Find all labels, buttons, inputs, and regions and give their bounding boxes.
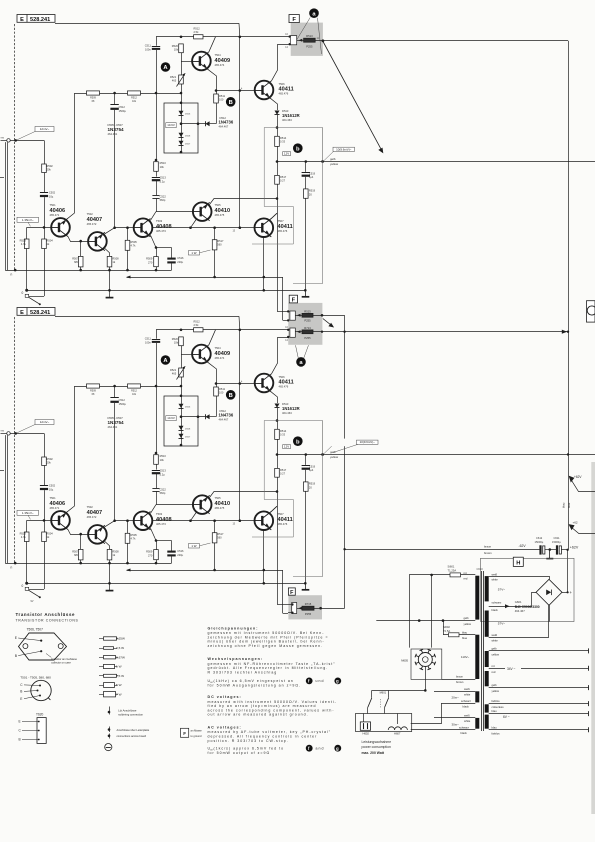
measurement arrow +62V (571, 479, 595, 492)
svg-text:R521: R521 (170, 75, 177, 79)
svg-text:R502: R502 (47, 164, 54, 168)
wire driver rail (239, 37, 241, 228)
wire selector feed b (431, 575, 433, 648)
wire lamp box to transformer (411, 703, 442, 723)
svg-text:Si602: Si602 (443, 625, 450, 629)
wire +62V line lower channel (313, 331, 568, 333)
wire F pin 12 (288, 44, 290, 46)
svg-text:R504: R504 (47, 239, 54, 243)
resistor R503 4.7k (26, 227, 28, 239)
svg-text:R515: R515 (304, 309, 311, 313)
svg-text:TRANSISTOR CONNECTIONS: TRANSISTOR CONNECTIONS (16, 619, 79, 623)
svg-text:1N4736: 1N4736 (219, 120, 234, 125)
wire n rail (5, 270, 171, 272)
svg-text:M605: M605 (401, 658, 408, 662)
svg-text:yellow: yellow (330, 162, 339, 166)
svg-text:C519: C519 (309, 171, 316, 175)
svg-text:gelb: gelb (492, 683, 498, 687)
svg-text:Si601: Si601 (448, 565, 455, 569)
wire tap blau 6V (489, 713, 589, 715)
svg-text:464.463: 464.463 (282, 118, 292, 122)
node A marker (161, 62, 171, 72)
transformer primary windings (475, 576, 479, 620)
svg-text:R517: R517 (280, 175, 287, 179)
svg-text:gelb: gelb (464, 616, 470, 620)
wire T501 collector (68, 93, 75, 218)
transistor T507 40411 (254, 218, 273, 237)
wire callout a4 (304, 345, 309, 358)
wire T503 collector (150, 212, 156, 221)
legend resistor 5 W (99, 683, 122, 688)
svg-text:weiß: weiß (492, 572, 498, 576)
diode D512 1N4736 (205, 121, 209, 126)
svg-text:colourless: colourless (492, 705, 505, 709)
transistor T504 40409 (192, 52, 211, 71)
wire T506 collector to F pin (272, 45, 289, 81)
svg-text:20k: 20k (47, 168, 52, 172)
svg-text:T620: T620 (36, 713, 43, 717)
svg-text:connections across board: connections across board (117, 734, 147, 738)
wire tap gelb2 (489, 687, 589, 689)
connector F (middle) gray block (288, 303, 322, 345)
svg-text:C516: C516 (177, 256, 184, 260)
svg-text:H607: H607 (394, 732, 401, 736)
svg-text:weiß: weiß (464, 714, 470, 718)
legend resistor 0,67W (99, 655, 125, 659)
svg-text:white: white (492, 578, 499, 582)
svg-text:T503: T503 (156, 219, 163, 223)
wire bridge AC1 (489, 577, 550, 580)
label 12mV (35, 127, 54, 132)
measurement arrow speaker (323, 319, 333, 327)
diode D513 1N1612R (272, 99, 278, 110)
svg-text:10(9.6mV)~: 10(9.6mV)~ (360, 440, 375, 444)
capacitor C508 (114, 93, 116, 104)
svg-text:B: B (19, 738, 21, 742)
svg-text:weiß: weiß (464, 687, 470, 691)
svg-text:Gleichspannungen:: Gleichspannungen: (208, 626, 259, 630)
second channel (translated copy) (0, 308, 595, 614)
svg-text:1.35mV~: 1.35mV~ (22, 218, 34, 222)
svg-text:D507: D507 (185, 144, 191, 146)
svg-text:white: white (492, 638, 499, 642)
resistor R715 P255 (302, 606, 314, 610)
svg-text:an Masse: an Masse (191, 729, 203, 733)
svg-text:100: 100 (219, 98, 224, 102)
connector F (bottom) gray block (288, 595, 322, 619)
svg-text:560p: 560p (160, 198, 166, 202)
svg-text:6µ4: 6µ4 (309, 175, 314, 179)
wire T501 collector to T502 base (68, 237, 88, 242)
svg-text:(1kc/s) approx 6,5mV fed t: (1kc/s) approx 6,5mV fed to (214, 746, 285, 750)
svg-text:white: white (464, 693, 471, 697)
svg-text:40406: 40406 (50, 208, 66, 214)
wire module edge right (322, 128, 324, 162)
svg-text:farblos: farblos (492, 699, 501, 703)
svg-text:34V ~: 34V ~ (507, 667, 516, 671)
resistor R514 0.33 (275, 136, 280, 146)
svg-text:rot: rot (464, 571, 467, 575)
svg-text:C511: C511 (145, 44, 152, 48)
trimmer R521 (179, 75, 184, 84)
svg-text:brown: brown (456, 680, 464, 684)
svg-text:0: 0 (22, 291, 24, 295)
primary tap weiss2 (434, 717, 475, 719)
svg-text:57V~: 57V~ (498, 622, 506, 626)
svg-text:40411: 40411 (279, 86, 294, 92)
svg-text:0,67W: 0,67W (116, 655, 125, 659)
wire F pin 10 (288, 36, 290, 38)
svg-text:30m~: 30m~ (452, 723, 460, 727)
wire T505 emitter (191, 219, 197, 228)
svg-text:yellow: yellow (492, 652, 500, 656)
legend resistor 1 W (99, 664, 122, 668)
wire left return (7, 142, 9, 270)
legend resistor 7 W (99, 692, 122, 697)
svg-text:schwarz: schwarz (461, 699, 472, 703)
wire bridge minus (549, 605, 551, 621)
scan shading right edge (591, 462, 595, 814)
measurement notes text block (208, 626, 342, 755)
resistor R517c 560 (214, 228, 216, 240)
primary tap schwarz2 (411, 729, 476, 731)
transistor T502 40407 (88, 232, 107, 251)
svg-text:5 W: 5 W (116, 683, 122, 687)
svg-text:6V ~: 6V ~ (503, 715, 510, 719)
wire T505 collector (210, 199, 278, 205)
svg-text:rot: rot (492, 664, 495, 668)
svg-text:Transistor Anschlüsse: Transistor Anschlüsse (16, 612, 76, 617)
wire callout a2 (318, 18, 322, 54)
wire T507 collector (271, 213, 277, 219)
capacitor C611 15000µ (556, 545, 558, 554)
svg-text:R505: R505 (131, 240, 138, 244)
transistor T501 40406 (51, 218, 70, 237)
svg-text:red: red (464, 576, 468, 580)
svg-text:R510: R510 (160, 161, 167, 165)
wire callout a3 (296, 345, 299, 358)
ground symbol (305, 290, 307, 296)
wire T505 base (156, 211, 192, 213)
wire tap farblos2 (489, 729, 589, 731)
label 12V (283, 152, 291, 156)
svg-text:-62V: -62V (519, 544, 527, 548)
column R510/C513/C522 (156, 93, 158, 160)
svg-text:black: black (463, 705, 470, 709)
svg-text:465.475: 465.475 (215, 213, 225, 217)
wire winding return (489, 605, 549, 637)
wire dashed board-edge line (14, 24, 16, 270)
svg-text:0.33: 0.33 (280, 140, 286, 144)
svg-text:C513: C513 (160, 176, 167, 180)
svg-text:farblos: farblos (492, 731, 501, 735)
resistor R509 68 (87, 91, 100, 95)
svg-text:schwarz: schwarz (492, 600, 503, 604)
resistor R513 P255 (304, 38, 316, 42)
svg-text:528.241: 528.241 (30, 17, 50, 23)
connector inner box middle bottom (290, 328, 295, 337)
wire tap rot 34V (489, 668, 505, 670)
svg-text:12mV~: 12mV~ (40, 127, 50, 131)
wire R715 in (297, 608, 302, 610)
svg-text:blau: blau (462, 630, 468, 634)
wire T503 base (115, 227, 135, 229)
svg-text:C610: C610 (477, 567, 484, 571)
wire 0 rail (27, 290, 306, 292)
svg-text:R514: R514 (280, 136, 287, 140)
primary tap blau with fuse Si602 (443, 634, 475, 636)
resistor R512b 10k (128, 91, 141, 95)
node B marker (226, 97, 236, 107)
power supply boundary box H (481, 558, 575, 621)
svg-text:220µ: 220µ (177, 260, 183, 264)
wire T504 collector (209, 37, 216, 52)
svg-text:R715: R715 (305, 602, 312, 606)
wire R515 out (313, 315, 345, 317)
transistor T505 40410 (193, 202, 212, 221)
resistor R515 P255 (302, 313, 313, 317)
resistor R713 P255 (302, 330, 313, 334)
svg-text:1,3 W: 1,3 W (116, 674, 124, 678)
ground symbol input stage (108, 289, 111, 292)
svg-text:D508: D508 (185, 136, 191, 138)
svg-text:10k: 10k (174, 48, 179, 52)
resistor R509b 270 (150, 235, 156, 248)
label 1.35mV (17, 217, 39, 222)
mains switch M601 (368, 698, 372, 708)
capacitor C612 15000µ (539, 545, 541, 554)
legend resistor 0,5 W (99, 646, 124, 650)
label 1W (188, 251, 199, 255)
wire T507 emitter (263, 237, 265, 291)
wire bottom F pin a (288, 604, 292, 606)
svg-text:Wechselspannungen:: Wechselspannungen: (208, 657, 264, 661)
svg-text:15000µ: 15000µ (535, 540, 544, 544)
wire R713 in (295, 331, 302, 333)
wire T504 base (181, 61, 193, 63)
svg-text:red: red (492, 670, 496, 674)
switch at input ground (29, 297, 40, 304)
legend board connections (108, 728, 111, 731)
transistor T506 40411 (255, 81, 274, 100)
svg-text:b: b (296, 146, 300, 152)
svg-text:10(9.6mV)~: 10(9.6mV)~ (336, 147, 351, 151)
svg-text:and: and (316, 746, 325, 750)
svg-text:10.6V: 10.6V (167, 123, 175, 127)
svg-text:R503: R503 (20, 239, 27, 243)
svg-text:2.5k: 2.5k (194, 30, 200, 34)
svg-text:0,5 W: 0,5 W (116, 646, 124, 650)
primary tap weiss (434, 691, 475, 693)
svg-text:57V~: 57V~ (498, 587, 506, 591)
legend minus symbol (105, 744, 112, 751)
primary tap braun (442, 679, 476, 681)
svg-text:schwarz: schwarz (459, 725, 470, 729)
resistor R511 (214, 94, 219, 103)
svg-text:g: g (336, 746, 340, 751)
wire from E frame to supply rail (55, 23, 239, 25)
loudspeaker connector box right edge (587, 301, 595, 322)
transformer core (481, 571, 483, 731)
svg-text:465.476: 465.476 (278, 229, 288, 233)
label F box middle (289, 295, 297, 303)
wire to +62V node (561, 549, 568, 551)
svg-text:black: black (461, 731, 468, 735)
svg-text:position. R 303/703 to CW-s: position. R 303/703 to CW-stop. (208, 739, 289, 743)
svg-text:465.476: 465.476 (279, 92, 289, 96)
wire -62V rail (345, 549, 541, 551)
svg-text:270: 270 (148, 260, 153, 264)
wire to T507 base (152, 227, 255, 229)
svg-text:20m~: 20m~ (452, 696, 460, 700)
svg-text:465.471: 465.471 (50, 213, 60, 217)
svg-text:R511: R511 (219, 94, 226, 98)
svg-text:T1,25A: T1,25A (448, 569, 457, 573)
svg-text:blau: blau (561, 502, 565, 508)
wire bridge + out (562, 592, 568, 594)
transistor T503 40408 (134, 218, 153, 237)
wire module edge return (293, 162, 323, 284)
svg-text:zeichnung ohne Pfeil gegen: zeichnung ohne Pfeil gegen Masse gemesse… (208, 644, 324, 648)
wire +62V vertical rail (568, 41, 570, 549)
wire bridge AC2 (489, 593, 536, 607)
wire tap farblos (489, 703, 589, 705)
svg-text:B: B (20, 690, 22, 694)
wire +62V line to right rail (315, 40, 568, 42)
svg-text:+62V: +62V (574, 475, 582, 479)
svg-text:E: E (20, 17, 24, 23)
svg-text:0,25W: 0,25W (116, 637, 125, 641)
svg-text:D506: D506 (185, 114, 191, 116)
svg-text:M601: M601 (380, 691, 387, 695)
wire tap gelb (489, 650, 589, 652)
svg-text:f: f (308, 678, 310, 683)
wire selector feeds to mains switch (425, 667, 427, 691)
wire T504 emitter (209, 70, 217, 94)
wire fuse link (443, 621, 445, 635)
svg-text:R713: R713 (304, 326, 311, 330)
label 10(9.6mV) lower channel reposition (332, 439, 357, 447)
transformer secondary windings (485, 576, 489, 601)
svg-text:Anschlüsse über Leiterplatte: Anschlüsse über Leiterplatte (117, 728, 150, 732)
svg-text:465.474: 465.474 (215, 63, 225, 67)
connector inner box bottom (292, 603, 297, 614)
svg-text:T502: T502 (87, 212, 94, 216)
svg-text:B: B (229, 100, 233, 106)
ground symbol supply (549, 550, 551, 559)
measurement arrow +62V diagonal (323, 42, 382, 151)
svg-text:P255: P255 (306, 44, 313, 48)
svg-text:C512: C512 (119, 105, 126, 109)
svg-text:DC voltages:: DC voltages: (208, 695, 242, 699)
primary feed with fuse Si601 (409, 574, 475, 576)
svg-text:C522: C522 (160, 195, 167, 199)
connector F (top) gray block (291, 23, 323, 56)
wire left shield (5, 142, 7, 270)
svg-text:braun: braun (456, 675, 463, 679)
svg-text:465.473: 465.473 (156, 229, 166, 233)
svg-text:1500µ: 1500µ (119, 109, 127, 113)
svg-text:blue: blue (462, 636, 468, 640)
connector inner box middle top (290, 311, 295, 320)
svg-text:yellow: yellow (492, 689, 500, 693)
wire output yellow line (277, 161, 595, 163)
resistor R520 (179, 44, 184, 53)
svg-text:f: f (308, 746, 310, 751)
wire R715 out to -62V rail (314, 608, 345, 610)
svg-text:P255: P255 (304, 336, 311, 340)
svg-text:1N3754: 1N3754 (108, 127, 125, 132)
frame label E 528.241 (17, 15, 55, 23)
svg-text:T501 - T505, 580, 680: T501 - T505, 580, 680 (20, 675, 51, 679)
svg-text:R517: R517 (217, 239, 224, 243)
svg-text:12V: 12V (284, 152, 289, 156)
resistor R512 2.5k (194, 35, 203, 39)
svg-text:1 W: 1 W (191, 251, 196, 255)
wire R513 in (297, 40, 304, 42)
svg-text:R508: R508 (112, 256, 119, 260)
svg-text:black: black (492, 608, 499, 612)
resistor R502 20k (44, 140, 46, 164)
measurement arrow -62V (571, 527, 595, 534)
svg-text:7 W: 7 W (116, 692, 122, 696)
svg-text:R509: R509 (146, 257, 153, 261)
svg-text:Kollektor am Gehäuse: Kollektor am Gehäuse (51, 657, 77, 661)
connector tag 0 (25, 294, 29, 297)
capacitor C516 220µ (156, 247, 172, 249)
svg-text:40410: 40410 (215, 208, 231, 214)
svg-text:+62V: +62V (570, 546, 579, 550)
svg-text:464.451: 464.451 (108, 132, 118, 136)
svg-text:40407: 40407 (87, 217, 103, 223)
svg-text:1N1612R: 1N1612R (282, 113, 300, 118)
svg-text:power consumption: power consumption (362, 745, 392, 749)
bridge rectifier G601 B40 C5000/3300 (536, 579, 562, 605)
svg-text:gelb: gelb (492, 647, 498, 651)
svg-text:40411: 40411 (278, 224, 293, 230)
svg-text:R507: R507 (72, 256, 79, 260)
svg-text:C502: C502 (49, 191, 56, 195)
wire bottom F pin b (288, 612, 292, 614)
svg-text:R513: R513 (306, 34, 313, 38)
svg-text:F: F (183, 731, 186, 736)
svg-text:P255: P255 (305, 612, 312, 616)
svg-text:R519: R519 (309, 189, 316, 193)
svg-text:soldering connection: soldering connection (118, 713, 143, 717)
svg-text:C612: C612 (536, 536, 543, 540)
svg-text:gelb: gelb (330, 157, 336, 161)
svg-text:1 W: 1 W (116, 665, 122, 669)
svg-text:15000µ: 15000µ (552, 540, 561, 544)
svg-text:40409: 40409 (215, 58, 231, 64)
legend resistor 0,25W (99, 637, 125, 641)
primary tap schwarz (441, 703, 475, 705)
svg-text:F: F (292, 297, 296, 303)
resistor R505 4.7k (126, 226, 129, 229)
svg-text:680: 680 (74, 260, 79, 264)
wire lower rail with measurement arrow (127, 277, 283, 279)
svg-text:4.7k: 4.7k (21, 242, 27, 246)
svg-text:100n: 100n (145, 47, 151, 51)
wire output column (277, 115, 279, 312)
svg-text:T506: T506 (279, 82, 286, 86)
svg-text:T506, T507: T506, T507 (27, 628, 43, 632)
svg-text:Leistungsaufnahme: Leistungsaufnahme (362, 740, 392, 744)
lamp box H602 H607 (356, 714, 412, 732)
svg-text:10µ: 10µ (49, 194, 54, 198)
svg-text:10k: 10k (160, 165, 165, 169)
lamp H607 coil (388, 727, 407, 730)
